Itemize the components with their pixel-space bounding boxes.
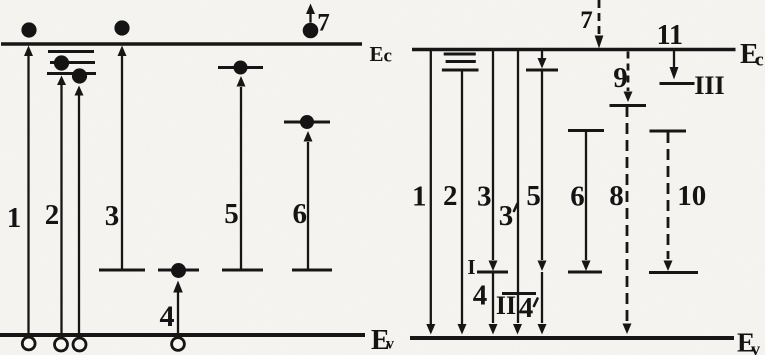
- svg-text:8: 8: [609, 180, 624, 212]
- svg-text:E: E: [370, 42, 384, 66]
- svg-text:2: 2: [45, 199, 60, 231]
- svg-text:1: 1: [7, 202, 22, 234]
- svg-text:2: 2: [443, 180, 458, 212]
- svg-text:4: 4: [473, 280, 488, 312]
- svg-text:c: c: [755, 50, 763, 71]
- svg-text:3: 3: [105, 200, 120, 232]
- svg-text:I: I: [467, 255, 475, 279]
- svg-text:6: 6: [570, 181, 585, 213]
- svg-text:3: 3: [477, 181, 492, 213]
- svg-text:III: III: [694, 71, 724, 100]
- svg-text:v: v: [386, 336, 394, 353]
- svg-text:9: 9: [613, 62, 628, 94]
- svg-text:10: 10: [677, 180, 706, 212]
- svg-text:7: 7: [317, 10, 330, 37]
- svg-text:3: 3: [499, 200, 514, 232]
- svg-text:4: 4: [519, 292, 534, 324]
- svg-text:v: v: [751, 339, 760, 355]
- svg-text:5: 5: [526, 180, 541, 212]
- svg-text:1: 1: [412, 181, 427, 213]
- svg-text:5: 5: [224, 198, 239, 230]
- svg-text:6: 6: [292, 198, 307, 230]
- svg-text:4: 4: [160, 300, 175, 333]
- svg-text:11: 11: [657, 20, 683, 51]
- svg-text:c: c: [384, 46, 392, 67]
- svg-text:II: II: [496, 291, 516, 320]
- svg-text:7: 7: [580, 7, 593, 34]
